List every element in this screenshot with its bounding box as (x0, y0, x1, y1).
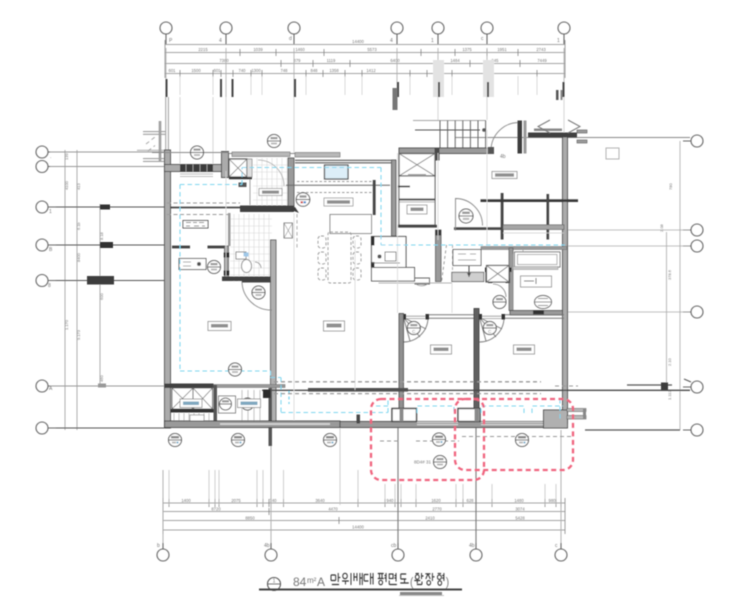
svg-text:2075: 2075 (231, 498, 241, 503)
svg-text:848: 848 (311, 68, 319, 73)
svg-text:1: 1 (273, 579, 276, 585)
svg-text:1484: 1484 (450, 58, 460, 63)
svg-text:1.170: 1.170 (64, 319, 69, 330)
svg-text:14400: 14400 (352, 39, 364, 44)
svg-text:1039: 1039 (253, 47, 263, 52)
svg-text:8.18: 8.18 (99, 231, 104, 240)
svg-text:1: 1 (431, 38, 434, 44)
svg-text:2410: 2410 (425, 516, 435, 521)
svg-text:A: A (317, 575, 325, 589)
svg-text:9.173: 9.173 (76, 329, 81, 340)
svg-text:4b: 4b (264, 543, 270, 549)
svg-text:8D4# 31: 8D4# 31 (414, 460, 432, 465)
svg-text:3074: 3074 (515, 507, 525, 512)
svg-text:1375: 1375 (462, 47, 472, 52)
svg-text:84: 84 (293, 575, 307, 589)
svg-text:628: 628 (467, 498, 475, 503)
svg-text:600: 600 (99, 293, 104, 300)
svg-text:14400: 14400 (352, 525, 364, 530)
svg-text:8: 8 (48, 283, 51, 289)
svg-text:7380: 7380 (219, 58, 229, 63)
svg-text:m²: m² (307, 576, 317, 585)
svg-text:b: b (157, 543, 160, 549)
svg-text:4: 4 (219, 38, 222, 44)
svg-text:): ) (446, 576, 450, 589)
svg-text:1358: 1358 (329, 68, 339, 73)
svg-text:1951: 1951 (497, 47, 507, 52)
svg-text:(: ( (410, 576, 414, 589)
svg-text:940: 940 (387, 498, 395, 503)
svg-text:2215: 2215 (198, 47, 208, 52)
svg-text:3640: 3640 (315, 498, 325, 503)
svg-text:1412: 1412 (366, 68, 376, 73)
svg-text:4: 4 (390, 38, 393, 44)
svg-text:780: 780 (668, 183, 673, 190)
svg-text:460: 460 (99, 375, 104, 382)
svg-text:4b: 4b (469, 543, 475, 549)
svg-text:601: 601 (214, 68, 222, 73)
svg-text:8400: 8400 (76, 252, 81, 262)
svg-text:.: . (50, 154, 51, 160)
svg-text:2770: 2770 (432, 507, 442, 512)
svg-text:139: 139 (64, 153, 69, 160)
svg-text:d: d (289, 36, 292, 42)
svg-text:8850: 8850 (245, 516, 255, 521)
svg-text:980: 980 (549, 498, 557, 503)
svg-text:1.112: 1.112 (667, 390, 672, 400)
svg-text:6.1b: 6.1b (76, 221, 81, 230)
svg-text:1119: 1119 (327, 58, 336, 63)
svg-text:879: 879 (294, 58, 302, 63)
svg-text:1480: 1480 (514, 498, 524, 503)
svg-text:1400: 1400 (181, 498, 191, 503)
svg-text:378.6: 378.6 (667, 269, 672, 280)
svg-text:748: 748 (281, 68, 289, 73)
svg-text:5428: 5428 (515, 516, 525, 521)
svg-text:1300: 1300 (251, 68, 261, 73)
svg-text:413: 413 (76, 183, 81, 190)
svg-text:cb: cb (391, 543, 397, 549)
svg-text:1500: 1500 (191, 68, 201, 73)
svg-text:2743: 2743 (536, 47, 546, 52)
svg-text:601: 601 (169, 68, 177, 73)
svg-text:7449: 7449 (537, 58, 547, 63)
svg-text:1: 1 (557, 38, 560, 44)
svg-text:2.10: 2.10 (667, 357, 672, 366)
svg-text:1620: 1620 (431, 498, 441, 503)
svg-text:4100: 4100 (64, 180, 69, 190)
svg-text:1460: 1460 (295, 47, 305, 52)
svg-text:2.08: 2.08 (659, 223, 664, 232)
svg-text:5573: 5573 (367, 47, 377, 52)
svg-text:1: 1 (49, 209, 52, 215)
svg-text:740: 740 (239, 68, 247, 73)
svg-text:4b: 4b (500, 154, 506, 160)
svg-text:8720: 8720 (211, 507, 221, 512)
svg-text:6400: 6400 (390, 58, 400, 63)
svg-text:4470: 4470 (328, 507, 338, 512)
